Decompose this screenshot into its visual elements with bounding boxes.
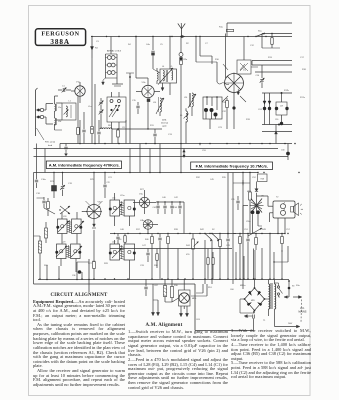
coil L1a [55, 104, 63, 114]
capacitor C10a [35, 173, 47, 189]
svg-text:S3: S3 [292, 286, 294, 288]
svg-text:C32: C32 [223, 111, 226, 113]
svg-text:C55: C55 [231, 199, 234, 201]
diode MR3a [243, 173, 258, 194]
grid resistor R16 [226, 98, 229, 129]
junction screen line [157, 201, 184, 233]
capacitor C61 [245, 311, 254, 331]
trimmer C14 [256, 65, 265, 88]
wire rail x243 [242, 180, 244, 289]
wire bridge to transformer [240, 287, 269, 313]
if transformer L17 L18 [109, 242, 136, 261]
aerial connector pair upper [36, 104, 54, 112]
junction dots bottom bus [58, 278, 271, 280]
junction dots on ht bus [79, 143, 296, 145]
wire screen line y202 [156, 201, 184, 203]
volume control potentiometer [186, 234, 198, 280]
wire mid bus y129 [112, 128, 162, 130]
capacitor C53 [200, 144, 207, 153]
resistor R2a [180, 58, 188, 144]
trimmer C4a [146, 37, 160, 74]
capacitor C22a [103, 173, 110, 199]
valve V1a [71, 82, 85, 104]
resistor R20a [47, 198, 50, 216]
capacitor C53a electrolytic [246, 210, 254, 233]
resistor R21a hatched [34, 236, 42, 262]
antenna [178, 23, 185, 38]
capacitor C47a [146, 249, 149, 263]
waveband arrow marker [90, 37, 98, 59]
svg-text:L14: L14 [153, 102, 156, 104]
resistor R52 [281, 234, 284, 253]
resistor R21b hatched [45, 222, 48, 243]
wire V3a feeds [82, 173, 94, 213]
wire fm tuner feed [169, 36, 170, 69]
svg-text:MR5a: MR5a [240, 285, 246, 287]
ground below aerial coils [102, 78, 123, 86]
wire mid bus2 y248 [110, 248, 232, 250]
wire lower left rail [33, 173, 35, 285]
wire gap crossings [37, 144, 182, 173]
resistor R17b network [262, 90, 292, 94]
resistor R7 [91, 58, 94, 144]
wire chassis bus y148 [34, 148, 279, 150]
metal rectifier MR6 [179, 279, 198, 306]
capacitor C55 [231, 196, 240, 210]
svg-text:C30: C30 [275, 119, 278, 121]
if transformer L28a L28b [56, 216, 82, 234]
trimmer C12a [99, 108, 104, 129]
wire right area verticals [233, 228, 286, 236]
valve V2 [222, 64, 247, 129]
capacitor C16 [153, 129, 156, 144]
resistor R46 [255, 234, 258, 251]
label bar AM intermediate frequency [46, 161, 121, 169]
ground leads below MR6 [179, 306, 188, 317]
svg-text:R48: R48 [261, 178, 264, 180]
wire V2 anode to bus [244, 37, 258, 68]
wire right stub pair B [252, 61, 292, 66]
junction dots bottom bus extra [39, 278, 274, 279]
junction dots lower top bus [53, 172, 299, 173]
wire lower top bus [34, 172, 258, 174]
wire bottom exit arrow [275, 323, 301, 328]
svg-text:C41: C41 [153, 207, 156, 209]
svg-text:L26: L26 [184, 97, 187, 99]
wire x130 vertical [126, 73, 134, 144]
capacitor C44 [178, 202, 181, 214]
on off switch S3 [275, 283, 295, 297]
coil L1b [55, 117, 62, 125]
wire verticals above bridge [235, 249, 254, 280]
label bar FM intermediate frequency [191, 162, 273, 170]
svg-text:C30: C30 [281, 150, 284, 152]
capacitor C48 [158, 234, 161, 249]
switch arrows S2a [59, 206, 70, 214]
diode MR2a [263, 93, 266, 125]
ferrite aerial annotation [37, 128, 56, 147]
ratio detector box MR4 [203, 96, 226, 129]
ground below fm tuner [161, 83, 170, 95]
svg-text:MAINS: MAINS [299, 311, 307, 314]
resistor R1a [227, 29, 234, 31]
wire right stub pair C [262, 124, 292, 144]
valve V1b [136, 78, 160, 113]
wire x228 long vertical [227, 173, 229, 235]
ground arrows left of MR6 [151, 284, 184, 316]
mains connector arrows [284, 280, 302, 298]
wire jog network upper right [196, 37, 229, 85]
coil L4a outside [157, 68, 158, 84]
capacitor C41 [153, 202, 160, 214]
diode MR2b [268, 93, 271, 125]
wire L15 leads [115, 193, 130, 226]
svg-text:R17a: R17a [300, 97, 306, 99]
wire right rail x233 [232, 173, 234, 285]
oscillator coil L14a [153, 97, 164, 116]
capacitor C54a electrolytic [256, 210, 262, 226]
capacitor C56 [246, 234, 249, 253]
output transformer and speaker box [273, 197, 295, 219]
svg-text:VOL: VOL [186, 254, 190, 256]
resistor R5 [77, 96, 80, 144]
svg-text:A.M.: A.M. [162, 119, 167, 122]
coil L26a with core [184, 93, 196, 116]
switch S1a [255, 31, 266, 38]
capacitor C50 [226, 234, 229, 249]
wire v1b cathode drop [126, 113, 149, 144]
junction dots top bus [91, 36, 248, 37]
svg-text:C29: C29 [280, 106, 283, 108]
trimmer C18a [60, 173, 65, 197]
fm aerial lead wire [36, 88, 38, 136]
wire speaker leads [257, 196, 286, 234]
capacitor box C29 [275, 93, 289, 125]
capacitor C20 under ht bus [64, 144, 67, 156]
wire bottom bus chassis [34, 284, 254, 331]
coil L2a [106, 56, 118, 60]
resistor R30 smoothing [163, 279, 166, 302]
svg-text:R40: R40 [145, 239, 148, 241]
resistor R38a [156, 249, 159, 269]
switch S2b marker [183, 149, 186, 158]
capacitor C24a [232, 106, 235, 109]
wire vertical x225 [226, 34, 263, 79]
wire v1b feed [135, 36, 148, 78]
rf choke on bus [100, 128, 112, 129]
wire top right feedback [227, 23, 292, 37]
capacitor C46a [116, 234, 119, 245]
fm tuner coil box L4 L5 [158, 66, 177, 85]
coil box L1 [56, 101, 76, 121]
resistor R41a [167, 234, 170, 249]
resistor R45 [239, 234, 242, 249]
valve V4a [133, 190, 156, 214]
capacitor C17a electrolytic [52, 173, 57, 199]
wire top bus [91, 36, 292, 38]
aerial coils ladder [106, 37, 118, 79]
svg-text:internal: internal [161, 122, 169, 125]
wire right stub pair B2 [255, 71, 292, 73]
resistor R48 boxed [258, 174, 268, 182]
node AM gate note [161, 119, 169, 128]
wire L1 couplings [55, 96, 63, 130]
svg-text:388A: 388A [50, 38, 70, 46]
wire rectifier drop lines [191, 284, 207, 296]
svg-text:L1b: L1b [58, 121, 61, 123]
capacitor C1 trimmer [58, 86, 71, 93]
svg-text:C36: C36 [72, 275, 75, 277]
speaker [291, 203, 304, 216]
svg-text:C61: C61 [245, 317, 248, 319]
svg-text:F.M. intermediate frequency 10: F.M. intermediate frequency 10.7Mc/s. [196, 164, 268, 169]
junction dots right mid bus [239, 233, 288, 234]
capacitor C8 [97, 120, 100, 144]
svg-text:AERIAL COILS: AERIAL COILS [107, 50, 122, 53]
wire verticals to bottom bus [40, 249, 178, 280]
wire agc line y156 [34, 156, 289, 158]
wire to rectifier [165, 298, 179, 302]
wire mid bus y233 [110, 233, 236, 235]
resistor R43 [219, 234, 222, 253]
capacitor C15 [132, 100, 140, 114]
title box FERGUSON 388A [35, 29, 85, 46]
wire L29 leads [61, 259, 76, 273]
wire mid bus left [111, 129, 113, 144]
capacitor C43 [170, 202, 177, 214]
aerial connector pair lower [36, 115, 54, 124]
wire diagonal joint [44, 208, 55, 214]
bridge rectifier MR5 [244, 280, 266, 312]
resistor R47 [249, 173, 252, 234]
svg-text:F.M. aerial: F.M. aerial [45, 141, 56, 144]
diode MR1a [179, 37, 183, 62]
wire L17 leads [115, 240, 130, 272]
svg-text:FERGUSON: FERGUSON [41, 32, 79, 38]
mains dashed link [300, 300, 303, 323]
resistor R40a [145, 234, 153, 249]
wire right stub pair A [262, 33, 292, 35]
svg-text:C31: C31 [223, 102, 226, 104]
if transformer L29a L29b [55, 242, 81, 259]
wire bottom bus HT [38, 279, 289, 281]
trimmer C11a [99, 98, 104, 108]
coil L5b [180, 108, 188, 143]
junction dots mid bus [114, 233, 229, 234]
wire stub y183 [233, 182, 250, 183]
resistor R9 [117, 128, 120, 143]
capacitor C19a [37, 197, 46, 208]
svg-text:MR5: MR5 [251, 300, 255, 302]
screen box above V2 [237, 60, 251, 74]
svg-text:C43: C43 [174, 207, 177, 209]
wire ht bus y143 [60, 143, 292, 145]
resistor R14 [262, 33, 280, 48]
ift arrows [56, 204, 122, 258]
coil L2b [106, 63, 118, 67]
switch box S1d [107, 92, 126, 129]
valve V6 output [243, 193, 264, 234]
mains transformer T1 [263, 280, 276, 327]
resistor R24 below V3a [93, 230, 96, 280]
if transformer L15 L16 [109, 198, 136, 217]
heater winding arrow [244, 315, 252, 318]
wire bottom left extras [46, 259, 96, 292]
capacitor C30 electrolytic [281, 144, 290, 161]
wire verticals right to bottom [205, 234, 288, 285]
svg-text:A.C.: A.C. [300, 307, 305, 310]
capacitor C6 [82, 112, 85, 144]
resistor pair R51a [207, 249, 214, 280]
coil L3a [106, 71, 118, 75]
ac mains label [299, 307, 307, 314]
diode arrow below V3a [92, 219, 96, 229]
capacitor C62a [144, 279, 147, 296]
capacitor C42 [163, 202, 166, 214]
resistor R31 smoothing [170, 279, 173, 302]
misc reference labels [36, 41, 307, 321]
valve V3a magic eye [86, 201, 103, 220]
wire left drop to chassis bus [60, 84, 95, 149]
svg-text:A.M. intermediate frequency 47: A.M. intermediate frequency 470Kc/s. [49, 163, 120, 168]
wire L28 leads [62, 212, 77, 244]
switch S2 cluster [204, 233, 219, 241]
resistor R37a [124, 234, 127, 245]
valve V4b [140, 220, 158, 234]
